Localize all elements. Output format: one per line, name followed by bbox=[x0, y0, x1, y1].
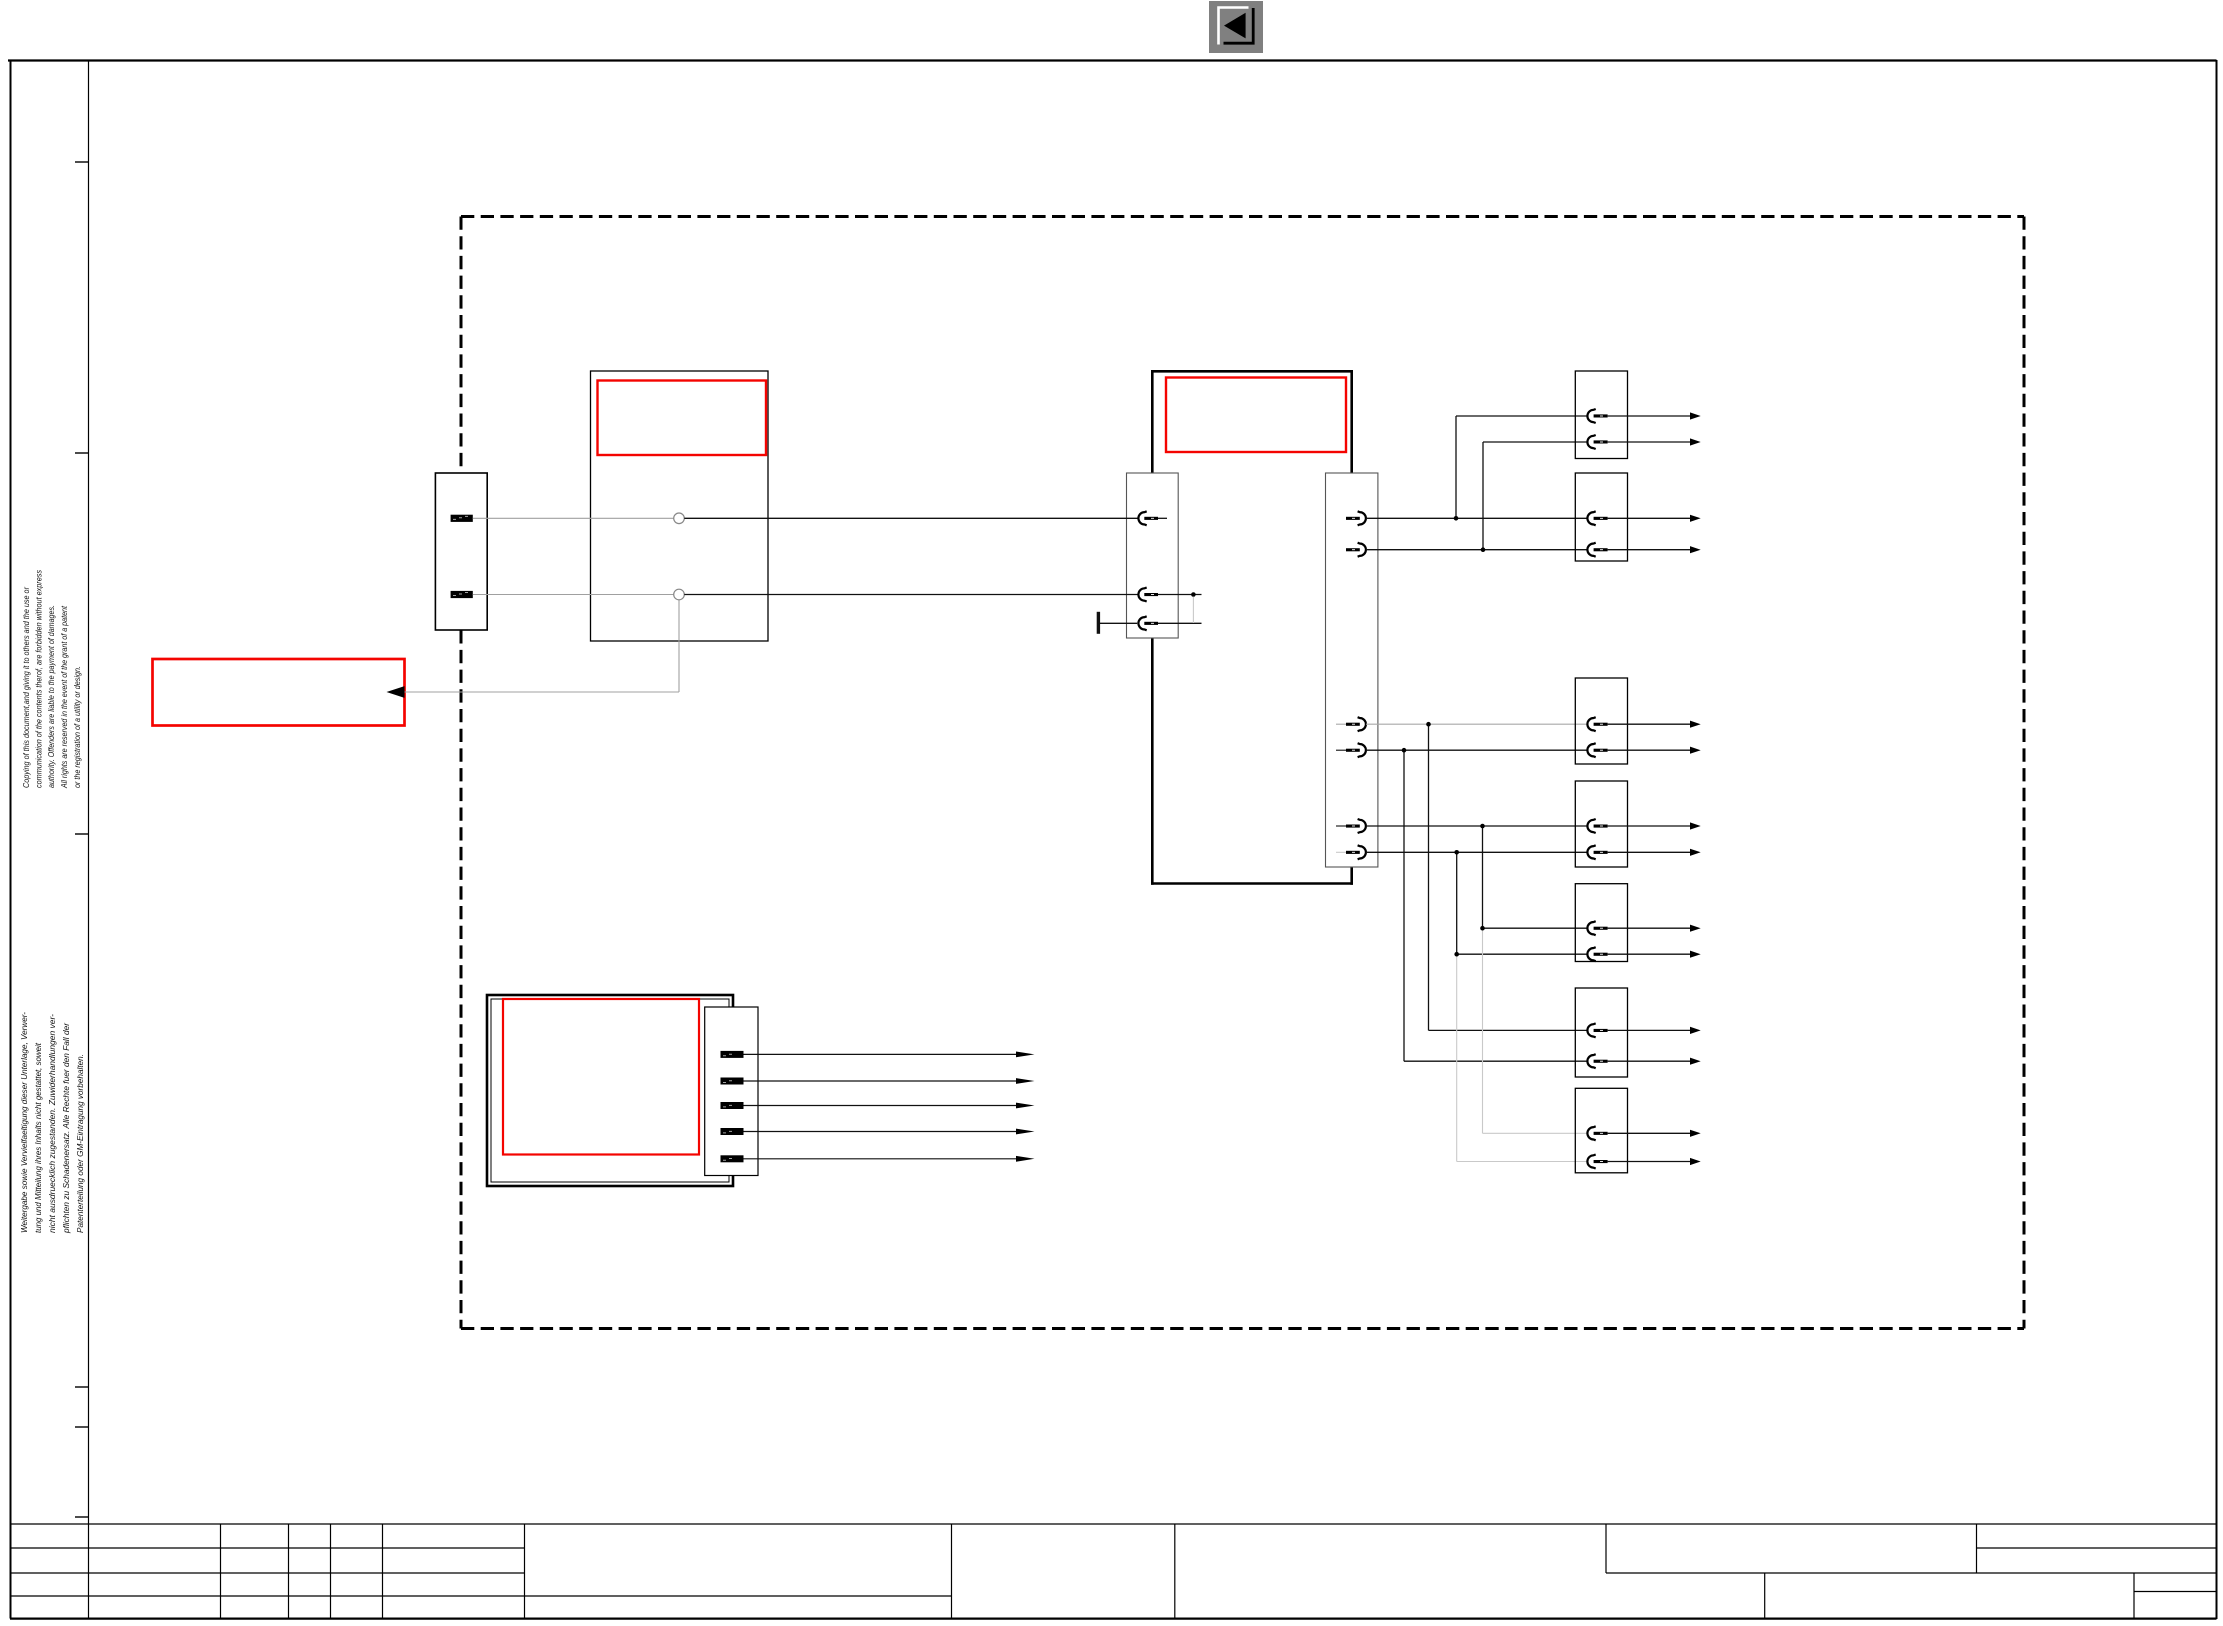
svg-text:All rights are reserved in the: All rights are reserved in the event of … bbox=[59, 606, 69, 789]
svg-text:authority. Offenders are liabl: authority. Offenders are liable to the p… bbox=[46, 605, 56, 788]
svg-text:Copying of this document,and g: Copying of this document,and giving it t… bbox=[21, 586, 31, 788]
svg-text:pflichten zu Schadenersatz. Al: pflichten zu Schadenersatz. Alle Rechte … bbox=[61, 1022, 71, 1234]
svg-text:tung und Mitteilung ihres Inha: tung und Mitteilung ihres Inhalts nicht … bbox=[33, 1042, 43, 1233]
svg-text:Weitergabe sowie Vervielfaelti: Weitergabe sowie Vervielfaeltigung diese… bbox=[19, 1012, 29, 1233]
svg-text:communication of the contents: communication of the contents therof, ar… bbox=[34, 569, 44, 788]
svg-text:nicht ausdruecklich zugestande: nicht ausdruecklich zugestanden. Zuwider… bbox=[47, 1014, 57, 1233]
svg-text:or the registration of a utili: or the registration of a utility or desi… bbox=[72, 666, 82, 788]
svg-text:Patenterteilung oder GM-Eintra: Patenterteilung oder GM-Eintragung vorbe… bbox=[75, 1054, 85, 1233]
